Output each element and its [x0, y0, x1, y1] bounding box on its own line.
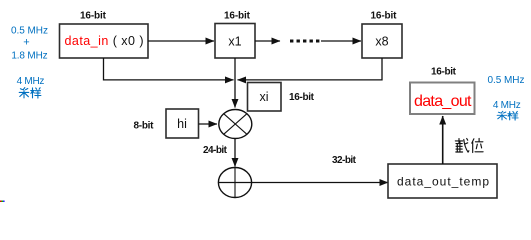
wire arrow into x8 — [321, 40, 361, 42]
blue note right: caiyang CJK drawn strokes — [497, 111, 518, 120]
wire data_in to x1 — [148, 40, 214, 42]
box hi — [166, 109, 199, 138]
svg-text:16-bit: 16-bit — [289, 92, 315, 103]
box x8 — [362, 24, 402, 58]
char yang — [508, 111, 518, 120]
svg-text:+: + — [23, 37, 29, 49]
box xi — [248, 83, 282, 112]
box data_out_temp — [388, 164, 497, 198]
wire dotted segment — [290, 40, 321, 43]
svg-text:16-bit: 16-bit — [371, 11, 398, 22]
char yang — [31, 88, 41, 98]
svg-text:0.5 MHz: 0.5 MHz — [488, 75, 525, 86]
adder circle with plus — [218, 168, 251, 198]
multiplier circle with X — [219, 110, 252, 139]
svg-text:0.5 MHz: 0.5 MHz — [11, 26, 48, 37]
svg-text:x8: x8 — [375, 35, 388, 49]
wire data_out_temp up to data_out — [442, 116, 444, 164]
wire x1 down to multiplier — [234, 58, 236, 108]
label jiewei (truncation) CJK drawn strokes — [455, 139, 483, 153]
svg-text:16-bit: 16-bit — [224, 11, 251, 22]
box x1 — [215, 24, 255, 59]
char jie — [455, 139, 469, 153]
wire x1 short arrow right — [255, 40, 280, 42]
box data_in (x0) — [60, 24, 149, 58]
svg-text:data_out_temp: data_out_temp — [397, 175, 489, 189]
corner rgb pixel marker — [0, 201, 5, 203]
svg-text:x1: x1 — [228, 35, 241, 49]
svg-text:4 MHz: 4 MHz — [493, 100, 521, 111]
char cai — [19, 88, 29, 98]
wire hi to multiplier — [199, 123, 218, 125]
svg-text:data_out: data_out — [414, 93, 472, 110]
wire adder to data_out_temp — [218, 182, 388, 184]
svg-text:1.8 MHz: 1.8 MHz — [11, 50, 47, 61]
svg-text:xi: xi — [259, 90, 268, 104]
blue note left: caiyang CJK drawn strokes — [19, 88, 41, 99]
wire drop from data_in bottom — [104, 58, 234, 80]
svg-text:16-bit: 16-bit — [80, 11, 107, 22]
svg-text:8-bit: 8-bit — [134, 120, 155, 131]
svg-text:16-bit: 16-bit — [431, 67, 457, 78]
box data_out — [410, 83, 475, 115]
svg-text:24-bit: 24-bit — [203, 145, 228, 156]
svg-text:hi: hi — [177, 117, 187, 131]
svg-text:data_in ( x0 ): data_in ( x0 ) — [65, 34, 144, 48]
svg-text:32-bit: 32-bit — [332, 155, 357, 166]
svg-text:4 MHz: 4 MHz — [17, 76, 45, 87]
char wei — [472, 139, 483, 153]
char cai — [497, 111, 507, 120]
wire drop from x8 bottom — [238, 58, 383, 80]
wire multiplier to adder — [234, 139, 236, 167]
